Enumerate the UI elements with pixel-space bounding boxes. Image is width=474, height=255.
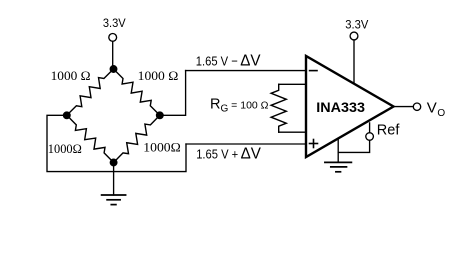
wire plus input [186,143,306,145]
svg-text:1.65 V +ΔV: 1.65 V +ΔV [196,146,261,163]
svg-text:1000 Ω: 1000 Ω [51,69,91,83]
node left [64,112,71,119]
resistor R1 top-left 1000 ohm [67,69,114,115]
wire bridge ground [113,163,115,196]
pin plus symbol [310,140,318,148]
svg-text:3.3V: 3.3V [345,17,368,31]
svg-text:O: O [437,108,445,119]
wire output [394,106,413,108]
svg-text:Ref: Ref [377,123,401,139]
node right [157,112,164,119]
op-amp U1 INA333 triangle [306,56,394,157]
svg-text:1.65 V −ΔV: 1.65 V −ΔV [196,53,261,70]
wire minus input [186,70,306,72]
svg-text:1000Ω: 1000Ω [143,141,181,155]
svg-text:INA333: INA333 [316,99,365,115]
svg-text:1000 Ω: 1000 Ω [138,69,179,83]
svg-text:1000Ω: 1000Ω [48,142,82,156]
node bottom [110,159,117,166]
pin minus symbol [310,70,317,72]
resistor RG gain set [271,84,286,132]
terminal Ref [366,133,374,141]
wire ref terminal stub [369,123,371,133]
ground bridge [102,195,126,205]
svg-text:V: V [427,100,437,117]
terminal 3.3V bridge [109,34,117,42]
svg-text:3.3V: 3.3V [103,16,126,30]
wire left node to bottom rail [47,115,186,171]
terminal Vo output [413,103,420,110]
svg-text:RG = 100 Ω: RG = 100 Ω [210,97,269,115]
ground amp [325,162,352,171]
wire bridge supply [112,41,114,66]
wire RG top stub [279,83,306,85]
wire RG bottom stub [279,131,306,133]
terminal 3.3V amp [350,32,358,40]
resistor R4 bottom-right 1000 ohm [114,115,160,162]
wire amp ground [337,139,339,162]
wire amp supply [353,40,355,84]
resistor R2 top-right 1000 ohm [114,69,160,115]
node top [110,66,117,73]
resistor R3 bottom-left 1000 ohm [67,115,114,162]
wire right node up [160,71,186,116]
wire ref to ground [338,140,369,152]
